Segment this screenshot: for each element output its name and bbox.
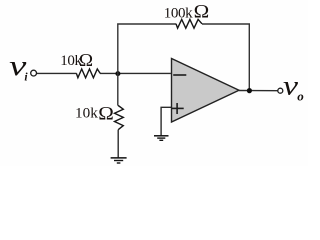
- resistor R1 zigzag 10k: [76, 69, 100, 78]
- terminal vo circle: [278, 88, 283, 93]
- terminal vi circle: [31, 70, 37, 76]
- svg-text:Ω: Ω: [79, 50, 93, 70]
- resistor R2 vertical zigzag 10k: [115, 106, 124, 130]
- resistor RF zigzag 100k: [176, 19, 202, 28]
- wire R2 to ground: [117, 130, 119, 158]
- op-amp minus sign: [173, 74, 186, 76]
- op-amp U1 triangle: [172, 59, 240, 123]
- svg-text:o: o: [297, 88, 304, 103]
- wire output: [239, 90, 278, 92]
- wire top right + right vertical feedback: [202, 24, 249, 91]
- wire R1 to op-amp minus input: [100, 72, 171, 74]
- op-amp plus sign: [172, 103, 184, 114]
- svg-text:10k: 10k: [75, 105, 98, 122]
- svg-text:Ω: Ω: [194, 2, 210, 23]
- svg-text:100k: 100k: [164, 5, 193, 21]
- svg-text:v: v: [283, 71, 298, 101]
- ground symbol below R2: [111, 158, 127, 163]
- node output junction dot: [247, 88, 252, 93]
- wire plus input to ground: [161, 107, 171, 135]
- ground symbol at plus input: [154, 136, 169, 141]
- wire input segment from vi terminal to R1: [36, 72, 76, 74]
- node junction dot at inverting input: [115, 71, 120, 76]
- svg-text:i: i: [24, 72, 28, 84]
- svg-text:Ω: Ω: [98, 105, 114, 125]
- wire left vertical feedback: [118, 24, 176, 106]
